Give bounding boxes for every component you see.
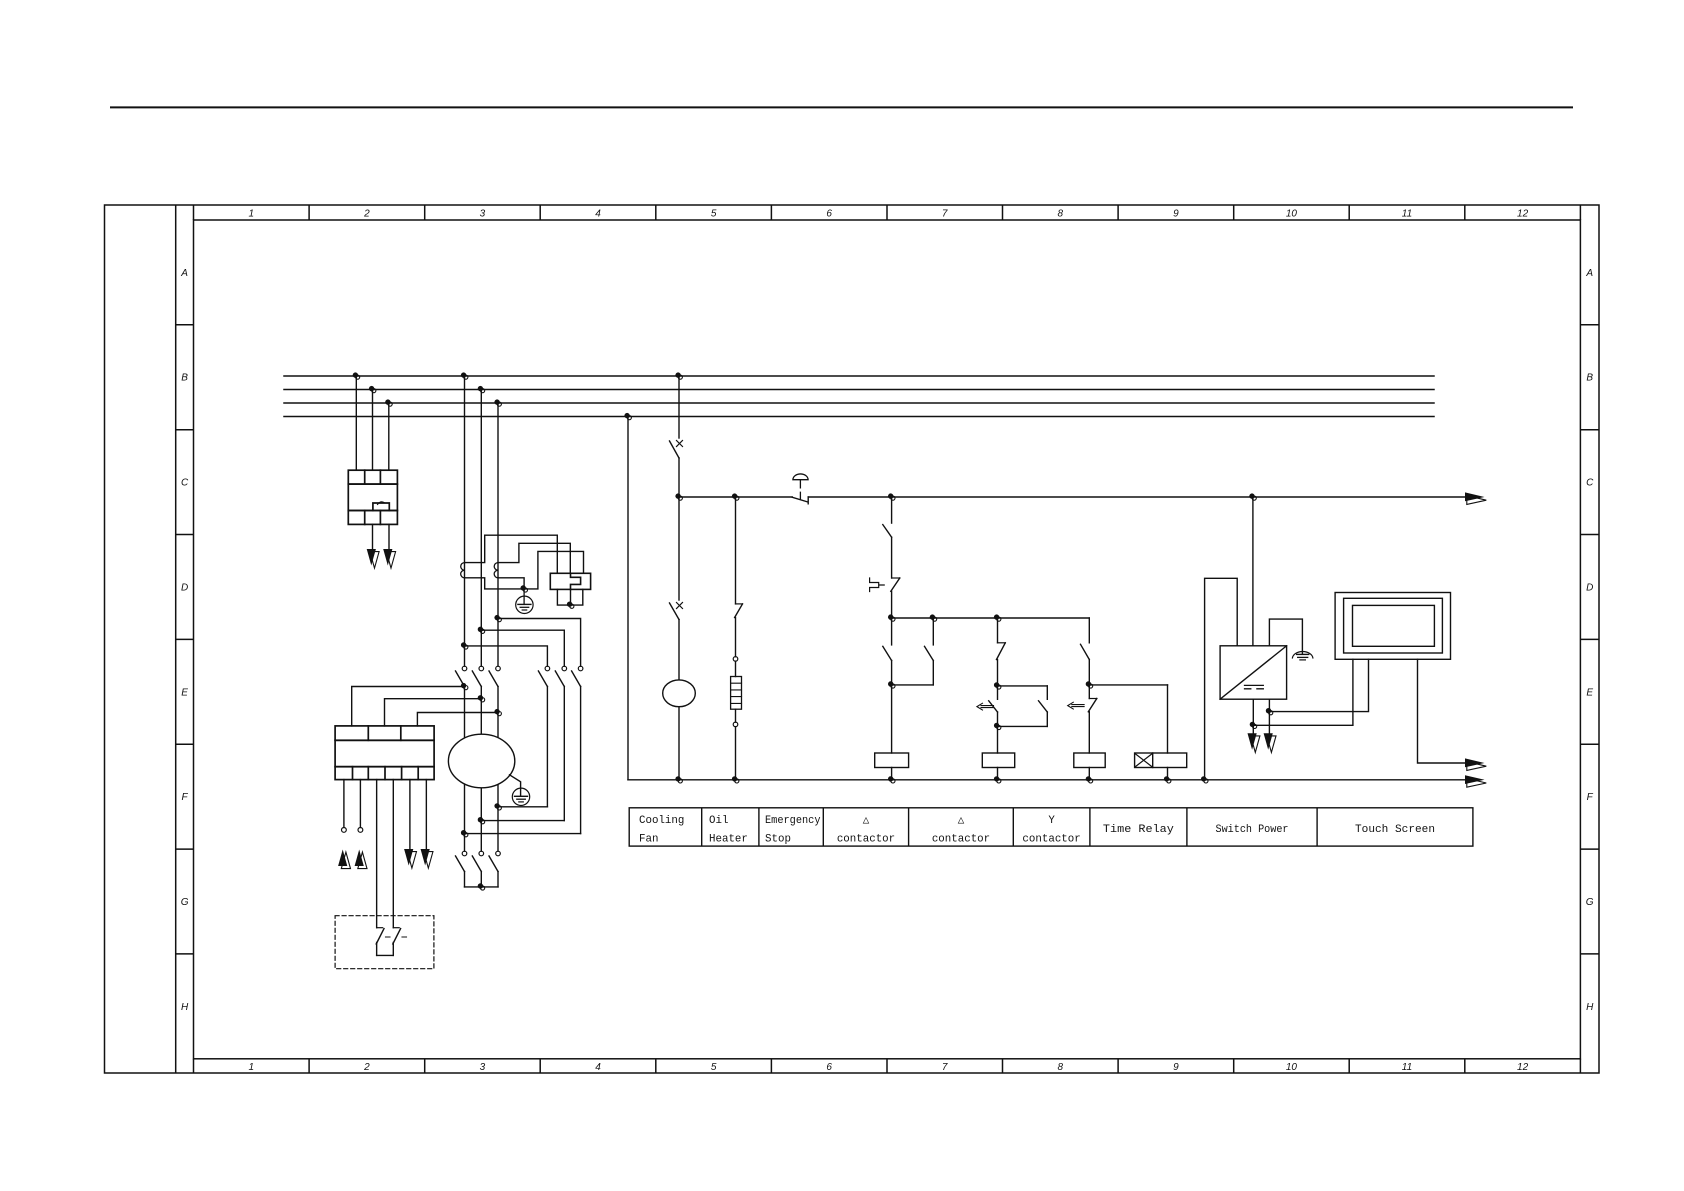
svg-text:5: 5: [711, 1062, 717, 1073]
svg-text:Fan: Fan: [639, 834, 658, 846]
contactor KM2 contact pole 1: [538, 666, 549, 686]
contactor KM3 star contact pole 1: [456, 851, 467, 887]
arrow control rail L end: [1465, 492, 1486, 504]
svg-text:9: 9: [1173, 209, 1179, 220]
wire PSU N riser: [1205, 578, 1238, 780]
svg-text:A: A: [180, 268, 188, 279]
svg-text:1: 1: [249, 1062, 255, 1073]
ground PE1: [516, 589, 533, 614]
wire drop L2 to QF1: [372, 390, 374, 471]
interlock switch pole 1: [376, 928, 384, 956]
svg-text:contactor: contactor: [932, 834, 990, 846]
svg-text:F: F: [1587, 792, 1594, 803]
node motor V2: [478, 817, 485, 824]
NC contact with pull actuator: [1068, 685, 1097, 753]
wire FR out 1: [343, 780, 345, 828]
terminal circle heater bottom: [733, 722, 738, 727]
node KM3 branch junction: [1086, 681, 1093, 688]
wire bus N: [284, 416, 1434, 418]
contactor KM1 contact pole 3: [489, 666, 500, 686]
wire phase U lower: [464, 687, 466, 852]
oil heater resistor EH: [731, 661, 742, 722]
svg-text:7: 7: [942, 209, 948, 220]
node delta tap V: [478, 627, 485, 634]
svg-text:H: H: [1586, 1002, 1594, 1013]
node motor W2: [494, 803, 501, 810]
wire QF1 out 2: [388, 524, 390, 549]
contactor coil KM2: [982, 726, 1014, 779]
ground PE2: [512, 788, 529, 805]
current transformer TA2: [494, 563, 498, 578]
wire N drop: [627, 417, 629, 780]
touch screen HMI: [1335, 593, 1450, 660]
svg-text:Y: Y: [1048, 815, 1055, 827]
node N control tap: [624, 413, 631, 420]
svg-text:Emergency: Emergency: [765, 815, 821, 827]
wire FR out 6: [425, 780, 427, 849]
svg-text:A: A: [1585, 268, 1593, 279]
svg-text:7: 7: [942, 1062, 948, 1073]
start contact branch a: [883, 618, 892, 685]
wire drop L1 to QF1: [355, 376, 357, 470]
contactor coil KM3: [1074, 753, 1105, 780]
terminal socket X1: [342, 828, 347, 833]
svg-text:E: E: [181, 687, 188, 698]
wire bus L3: [284, 402, 1434, 404]
switch power supply U1: [1220, 646, 1287, 699]
wire CT1 secondary top: [465, 535, 558, 573]
wire motor V2 link: [481, 820, 564, 822]
svg-text:C: C: [1586, 478, 1594, 489]
arrow touch screen out: [1465, 758, 1486, 770]
wire star point bar: [465, 886, 499, 888]
wire DC- to touch screen: [1269, 659, 1368, 711]
arrow FR out 6 down: [421, 849, 433, 868]
svg-text:Heater: Heater: [709, 834, 748, 846]
wire control rail L continued: [808, 496, 1465, 498]
node bus tap V: [478, 386, 485, 393]
node KM2 branch bottom: [994, 723, 1001, 730]
legend table: [629, 808, 1473, 846]
svg-text:10: 10: [1286, 1062, 1298, 1073]
node N rail KT: [1164, 776, 1171, 783]
emergency stop button SB1: [792, 474, 808, 504]
wire fan to N rail: [678, 707, 680, 780]
breaker QF3 fan branch: [670, 497, 683, 680]
svg-text:Touch Screen: Touch Screen: [1355, 824, 1435, 836]
wire interlock bottom link: [377, 954, 394, 956]
node L1 control tap: [675, 372, 682, 379]
terminal socket X2: [358, 828, 363, 833]
contactor coil KM1: [875, 685, 909, 780]
svg-text:4: 4: [595, 1062, 601, 1073]
svg-text:2: 2: [363, 209, 370, 220]
wire touch screen signal out: [1418, 659, 1466, 763]
node N rail KM1: [888, 776, 895, 783]
wire DC+ to touch screen: [1253, 659, 1353, 725]
node N rail KM3: [1086, 776, 1093, 783]
svg-text:3: 3: [480, 209, 486, 220]
row ticks right strip: [1580, 325, 1599, 954]
wire KM1 out V to FR: [385, 699, 482, 726]
node bus tap QF1 L3: [385, 399, 392, 406]
wire FR out 5: [409, 780, 411, 849]
svg-text:△: △: [863, 815, 870, 827]
wire motor U2 link: [465, 833, 581, 835]
svg-text:Cooling: Cooling: [639, 815, 684, 827]
breaker QF2: [670, 441, 683, 498]
svg-text:6: 6: [826, 209, 832, 220]
node motor U2: [461, 830, 468, 837]
svg-text:3: 3: [480, 1062, 486, 1073]
node delta tap W: [494, 615, 501, 622]
node star point: [478, 883, 485, 890]
svg-text:1: 1: [249, 209, 255, 220]
svg-text:B: B: [1586, 373, 1593, 384]
cooling fan motor M2: [663, 680, 696, 707]
svg-text:Switch Power: Switch Power: [1216, 824, 1289, 836]
node rail L fan tap: [675, 493, 682, 500]
KM2 branch interlock NC contact: [997, 618, 1006, 686]
node KM1 out W: [494, 709, 501, 716]
node N rail heater: [732, 776, 739, 783]
oil heater branch thermostat contact: [735, 497, 743, 657]
svg-text:8: 8: [1058, 209, 1064, 220]
wire PSU DC- output: [1268, 699, 1270, 733]
interlock switch pole 2: [393, 928, 401, 956]
arrow DC+ down: [1248, 733, 1260, 752]
wire PSU PE: [1269, 619, 1302, 654]
node row618 b: [930, 614, 937, 621]
wire KM1 out U to FR: [352, 687, 465, 726]
wire bus L1: [284, 375, 1434, 377]
wire heater to N rail: [735, 727, 737, 780]
node bus tap W: [494, 399, 501, 406]
wire CT2 secondary bottom: [498, 578, 524, 589]
wire control node row 618: [892, 617, 1090, 619]
start contact branch b: [892, 618, 934, 685]
arrow FR out 5 down: [404, 849, 416, 868]
wire L1 control drop: [678, 376, 680, 438]
thermal relay FR block: [335, 726, 434, 780]
column ticks bottom strip: [194, 1059, 1581, 1073]
node row618 c: [994, 614, 1001, 621]
wire N rail bottom: [628, 779, 1466, 781]
node delta tap U: [461, 642, 468, 649]
wire QF1 out 1: [372, 524, 374, 549]
svg-text:C: C: [181, 478, 189, 489]
thermal relay FR release symbol: [870, 578, 885, 592]
svg-text:11: 11: [1402, 209, 1412, 220]
svg-text:H: H: [181, 1002, 189, 1013]
wire CT2 secondary top: [498, 543, 570, 573]
svg-text:contactor: contactor: [837, 834, 895, 846]
arrow DC- down: [1264, 733, 1276, 752]
current transformer TA1: [461, 563, 465, 578]
door interlock switch box (dashed): [335, 916, 434, 969]
node KM1 seal junction: [888, 681, 895, 688]
wire drop L1 phase U: [464, 376, 466, 666]
contactor KM1 contact pole 1: [456, 666, 467, 686]
wire drop L2 phase V: [480, 390, 482, 667]
wire KM3 node to time relay: [1089, 684, 1167, 686]
svg-text:Stop: Stop: [765, 834, 791, 846]
ammeter box PA: [550, 573, 590, 589]
wire motor to ground: [510, 775, 521, 796]
KM1 branch auto contact: [883, 497, 892, 578]
wire control rail L: [679, 496, 792, 498]
terminal circle heater top: [733, 657, 738, 662]
svg-text:Time Relay: Time Relay: [1103, 824, 1175, 836]
arrow QF1 out 2: [383, 549, 395, 568]
svg-text:9: 9: [1173, 1062, 1179, 1073]
node KM1 out U: [461, 683, 468, 690]
wire KM2 pole1 down: [546, 687, 548, 807]
svg-text:Oil: Oil: [709, 815, 728, 827]
wire drop L3 to QF1: [388, 403, 390, 470]
node rail L PSU tap: [1249, 493, 1256, 500]
svg-text:4: 4: [595, 209, 601, 220]
svg-text:12: 12: [1517, 1062, 1529, 1073]
svg-text:6: 6: [826, 1062, 832, 1073]
svg-text:D: D: [1586, 582, 1593, 593]
svg-text:G: G: [181, 897, 189, 908]
svg-text:△: △: [958, 815, 965, 827]
wire bus L2: [284, 389, 1434, 391]
selector contact with pull actuator: [977, 686, 998, 727]
node meter link: [567, 602, 574, 609]
node DC+ tap: [1250, 722, 1257, 729]
node KM2 branch top: [994, 682, 1001, 689]
svg-text:B: B: [181, 373, 188, 384]
arrow plug 2 up: [355, 850, 367, 869]
wire delta tap U: [465, 646, 548, 666]
wire FR out 2: [359, 780, 361, 828]
svg-text:2: 2: [363, 1062, 370, 1073]
time relay KT coil: [1135, 685, 1187, 780]
wire delta tap V: [481, 630, 564, 666]
svg-text:E: E: [1586, 687, 1593, 698]
contactor KM1 contact pole 2: [472, 666, 483, 686]
wire FR out 3 to interlock: [376, 780, 378, 928]
thermal relay FR NC contact: [891, 578, 900, 618]
parallel NO contact branch: [998, 686, 1048, 727]
wire motor W2 link: [498, 806, 547, 808]
node bus tap QF1 L2: [369, 386, 376, 393]
svg-text:11: 11: [1402, 1062, 1412, 1073]
contactor KM3 star contact pole 3: [489, 851, 500, 887]
svg-text:8: 8: [1058, 1062, 1064, 1073]
node bus tap U: [461, 372, 468, 379]
wire PSU L drop: [1252, 497, 1254, 646]
svg-text:5: 5: [711, 209, 717, 220]
svg-text:contactor: contactor: [1022, 834, 1080, 846]
node N rail PSU riser: [1201, 776, 1208, 783]
wire KM1 out W to FR: [417, 713, 498, 726]
wire PSU DC+ output: [1252, 699, 1254, 733]
wire meter bottom link: [557, 589, 582, 605]
contactor KM2 contact pole 3: [572, 666, 583, 686]
node N rail KM2: [994, 776, 1001, 783]
node row618 a: [888, 614, 895, 621]
wire phase V lower: [480, 687, 482, 852]
node N rail fan: [675, 776, 682, 783]
interlock mechanical link dashes: [386, 936, 407, 938]
svg-text:F: F: [182, 792, 189, 803]
svg-text:10: 10: [1286, 209, 1298, 220]
arrow plug 1 up: [338, 850, 350, 869]
node CT common ground: [521, 585, 528, 592]
arrow N rail end: [1465, 775, 1486, 787]
row ticks left strip: [176, 325, 194, 954]
svg-text:G: G: [1586, 897, 1594, 908]
node rail L KM branch tap: [888, 493, 895, 500]
node DC- tap: [1266, 708, 1273, 715]
wire KM2 pole3 down: [580, 687, 582, 834]
wire KM2 pole2 down: [563, 687, 565, 821]
svg-text:D: D: [181, 582, 188, 593]
node rail L heater tap: [732, 493, 739, 500]
wire CT1 secondary bottom common: [465, 551, 584, 589]
node KM1 out V: [478, 695, 485, 702]
ground PE3 chassis: [1292, 652, 1313, 660]
breaker block QF1: [348, 470, 397, 524]
wire FR out 4 to interlock: [392, 780, 394, 928]
KM3 branch NO contact: [1081, 618, 1090, 685]
svg-text:12: 12: [1517, 209, 1529, 220]
wire phase W lower: [497, 687, 499, 852]
motor M: [448, 734, 514, 788]
column ticks top strip: [194, 205, 1581, 220]
wire delta tap W: [498, 619, 581, 667]
contactor KM3 star contact pole 2: [472, 851, 483, 887]
node bus tap QF1 L1: [353, 372, 360, 379]
wire drop L3 phase W: [497, 403, 499, 666]
arrow QF1 out 1: [367, 549, 379, 568]
contactor KM2 contact pole 2: [555, 666, 566, 686]
